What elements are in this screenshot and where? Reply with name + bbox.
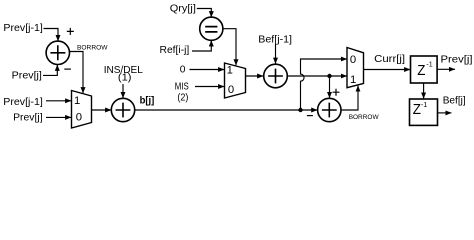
svg-text:0: 0 (228, 84, 234, 96)
wire b[j] junction up to mux M3 input 0 (301, 59, 347, 110)
plus sign at U1 top input (67, 28, 74, 35)
wire Curr[j] from M3 to register Z1 (364, 69, 411, 71)
svg-text:Prev[j-1]: Prev[j-1] (3, 97, 43, 108)
junction on U4 output wire (327, 74, 331, 78)
svg-text:Prev[j-1]: Prev[j-1] (3, 23, 43, 34)
register Z1 (411, 56, 438, 83)
wire U3 output to mux M2 select (223, 29, 236, 66)
svg-text:(1): (1) (118, 73, 132, 84)
wire M2 output to adder U4 (246, 75, 264, 77)
svg-text:Prev[j]: Prev[j] (12, 71, 42, 82)
wire b[j] from U2 to subtractor U5 left (135, 109, 317, 111)
register Z2 (410, 99, 438, 125)
wire U1 borrow to mux M1 select (70, 52, 83, 94)
comparator U3 (equality) (200, 17, 223, 40)
wire M1 output to adder U2 (92, 109, 112, 111)
svg-text:1: 1 (350, 74, 356, 86)
subtractor U5 (borrow generator) (318, 98, 341, 121)
minus sign at U1 bottom input (64, 68, 71, 70)
wire Prev[j] to subtractor U1 bottom (43, 65, 57, 76)
svg-text:Qry[j]: Qry[j] (170, 4, 196, 15)
wire Prev[j] to M1 input 0 (46, 116, 71, 118)
wire Prev[j-1] to subtractor U1 top (44, 29, 59, 42)
svg-text:Prev[j]: Prev[j] (441, 54, 473, 65)
svg-text:(2): (2) (177, 93, 188, 104)
wire Z1 to register Z2 (423, 83, 425, 99)
svg-text:Ref[i-j]: Ref[i-j] (160, 45, 190, 56)
svg-text:0: 0 (350, 54, 356, 66)
wire MIS to M2 input 0 (195, 86, 224, 88)
svg-text:Prev[j]: Prev[j] (13, 113, 43, 124)
wire Bef[j-1] to adder U4 top (275, 45, 277, 64)
svg-text:-1: -1 (421, 102, 427, 109)
adder U2 (b computation) (111, 98, 134, 121)
mux M3 (347, 48, 364, 88)
plus sign at U5 top input (333, 89, 340, 96)
svg-text:Bef[j-1]: Bef[j-1] (258, 35, 292, 46)
svg-text:Curr[j]: Curr[j] (374, 54, 405, 65)
wire Z1 output Prev[j] (437, 68, 455, 70)
svg-text:1: 1 (74, 95, 80, 107)
svg-text:0: 0 (76, 112, 82, 124)
svg-text:Z: Z (417, 63, 425, 79)
minus sign at U5 left input (307, 115, 313, 117)
wire Ref[i-j] to comparator U3 bottom (192, 40, 211, 51)
wire Qry[j] to comparator U3 top (197, 9, 212, 18)
mux M2 (225, 63, 246, 98)
wire junction down to subtractor U5 top (329, 76, 331, 98)
wire INS/DEL to adder U2 top (122, 84, 124, 98)
svg-text:BORROW: BORROW (77, 45, 108, 52)
adder U4 (264, 64, 288, 88)
wire 0 to M2 input 1 (190, 69, 225, 71)
wire Z2 output Bef[j] (438, 112, 452, 114)
svg-text:BORROW: BORROW (349, 114, 379, 121)
mux M1 (72, 91, 92, 129)
wire U5 borrow to mux M3 select (341, 86, 358, 110)
svg-text:1: 1 (227, 64, 233, 76)
svg-text:0: 0 (180, 65, 186, 76)
svg-text:b[j]: b[j] (140, 96, 155, 107)
svg-text:Bef[j]: Bef[j] (443, 96, 466, 107)
wire Prev[j-1] to M1 input 1 (46, 100, 71, 102)
wire U4 output to mux M3 input 1 (hops over vertical wire) (287, 75, 347, 77)
svg-text:Z: Z (413, 102, 421, 118)
svg-text:-1: -1 (426, 62, 432, 69)
junction on b[j] wire (298, 108, 302, 112)
svg-text:MIS: MIS (175, 82, 189, 93)
subtractor U1 (Prev[j-1] minus Prev[j]) (46, 41, 69, 64)
